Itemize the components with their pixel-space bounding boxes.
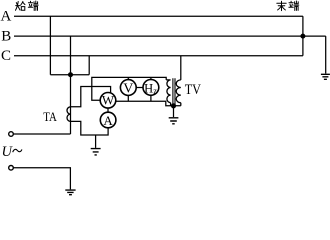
wire TV primary drop from C <box>180 56 182 80</box>
wire terminal 2 to ground <box>13 168 70 190</box>
wire phase A line <box>14 15 303 17</box>
wire V to Hz link <box>136 87 143 89</box>
wire phase B line <box>14 35 326 37</box>
current transformer TA secondary coil <box>67 107 71 122</box>
wire Hz top stub <box>150 77 152 79</box>
svg-text:B: B <box>1 28 11 44</box>
svg-text:TV: TV <box>185 82 201 98</box>
wire TA primary <box>70 75 72 134</box>
wire phase C line <box>14 55 303 57</box>
source terminal 2 <box>9 166 14 171</box>
wire TA secondary bottom to ammeter <box>71 121 109 135</box>
TV core <box>173 78 175 105</box>
svg-text:TA: TA <box>43 110 57 124</box>
wire end B to ground <box>325 36 327 73</box>
wire W left pin to top rail <box>92 77 166 100</box>
svg-text:A: A <box>1 9 12 25</box>
wire terminal 1 to TA primary <box>13 133 70 135</box>
wire C drop at start <box>88 56 90 75</box>
frequency meter Hz <box>143 80 159 96</box>
ground under metering <box>95 135 97 148</box>
svg-text:H: H <box>144 81 153 95</box>
source terminal 1 <box>9 132 14 137</box>
wire Hz bottom stub <box>150 95 152 101</box>
ground TV <box>173 106 175 117</box>
wire V bottom stub <box>127 95 129 101</box>
label 始端 (start end) <box>16 1 26 10</box>
svg-text:z: z <box>153 85 157 95</box>
svg-text:A: A <box>103 113 113 128</box>
svg-text:V: V <box>123 81 133 96</box>
wire A drop at start <box>49 16 51 74</box>
wire W bottom to ammeter <box>107 108 109 112</box>
ground bottom <box>65 190 75 195</box>
svg-text:C: C <box>1 48 11 64</box>
wire B drop at start <box>70 36 72 75</box>
voltage transformer TV secondary winding <box>166 80 170 106</box>
wire end short-circuit vertical <box>302 16 304 56</box>
svg-text:W: W <box>102 92 115 107</box>
ground right end <box>321 74 330 79</box>
wattmeter W <box>100 93 116 109</box>
voltmeter V <box>120 80 136 96</box>
wire V top stub <box>127 77 129 79</box>
junction dot start busbar <box>68 72 73 77</box>
junction dot TV ground <box>171 103 176 108</box>
wire start busbar <box>50 74 89 76</box>
voltage transformer TV primary winding <box>176 80 181 106</box>
wire meters bottom rail <box>116 101 181 106</box>
wire TA secondary top to wattmeter <box>71 87 111 107</box>
label 末端 (far end) <box>277 1 286 10</box>
ammeter A <box>100 112 116 128</box>
svg-text:U: U <box>2 144 14 160</box>
junction dot end B <box>300 34 305 39</box>
